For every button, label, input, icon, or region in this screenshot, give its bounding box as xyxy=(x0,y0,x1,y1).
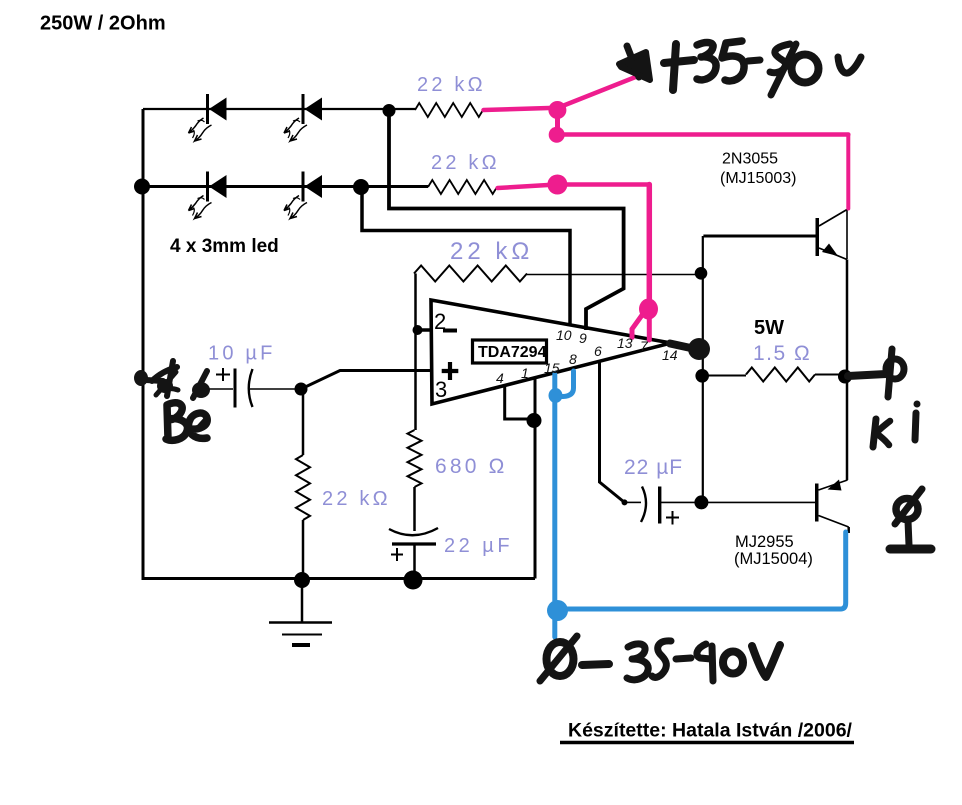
svg-text:250W / 2Ohm: 250W / 2Ohm xyxy=(40,13,166,35)
svg-text:1.5 Ω: 1.5 Ω xyxy=(753,342,811,365)
svg-text:2N3055: 2N3055 xyxy=(722,151,778,168)
svg-text:13: 13 xyxy=(617,335,633,351)
svg-text:4 x 3mm led: 4 x 3mm led xyxy=(170,236,279,257)
svg-text:3: 3 xyxy=(435,377,447,402)
svg-text:6: 6 xyxy=(594,343,602,359)
svg-text:22 kΩ: 22 kΩ xyxy=(417,74,486,96)
svg-text:22 µF: 22 µF xyxy=(624,456,683,479)
svg-text:MJ2955: MJ2955 xyxy=(735,533,794,551)
svg-text:15: 15 xyxy=(544,360,560,376)
svg-text:4: 4 xyxy=(496,370,504,386)
svg-text:7: 7 xyxy=(640,338,649,354)
svg-text:Készítette: Hatala István /200: Készítette: Hatala István /2006/ xyxy=(568,720,853,742)
svg-text:9: 9 xyxy=(579,330,587,346)
svg-text:22 kΩ: 22 kΩ xyxy=(431,152,500,174)
svg-text:22 kΩ: 22 kΩ xyxy=(322,488,391,510)
svg-text:22 µF: 22 µF xyxy=(444,535,513,557)
svg-text:14: 14 xyxy=(662,347,678,363)
svg-text:10: 10 xyxy=(556,327,572,343)
svg-text:1: 1 xyxy=(521,365,529,381)
svg-text:10 µF: 10 µF xyxy=(208,343,276,365)
svg-text:TDA7294: TDA7294 xyxy=(478,344,547,361)
svg-text:(MJ15003): (MJ15003) xyxy=(720,170,796,187)
svg-text:5W: 5W xyxy=(754,317,784,339)
svg-text:22 kΩ: 22 kΩ xyxy=(450,238,533,265)
svg-text:(MJ15004): (MJ15004) xyxy=(734,550,813,568)
svg-text:680 Ω: 680 Ω xyxy=(435,455,508,478)
svg-text:8: 8 xyxy=(569,351,577,367)
